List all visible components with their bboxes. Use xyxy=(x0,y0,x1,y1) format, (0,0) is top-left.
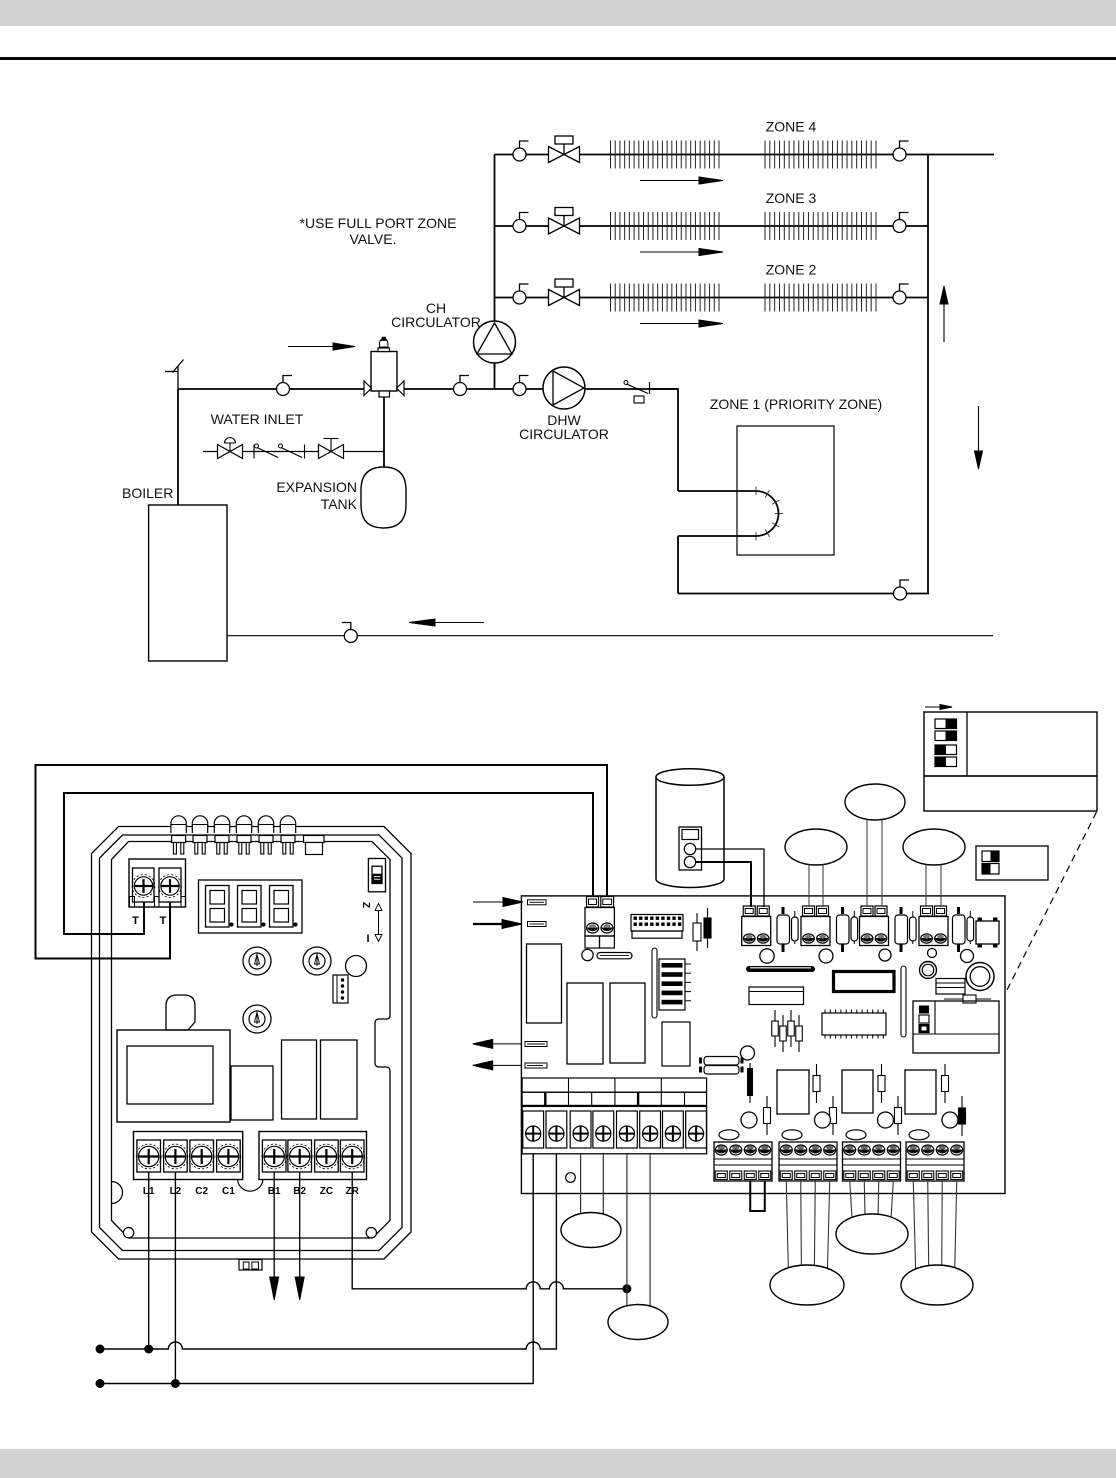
boiler return pipe xyxy=(227,635,993,637)
terminal label B2 xyxy=(293,1186,306,1197)
terminal block TB1 xyxy=(742,906,771,946)
oval C wires xyxy=(926,865,941,908)
zone 3 supply pipe xyxy=(495,225,929,227)
8-position screw strip xyxy=(522,1106,707,1153)
wire L1 xyxy=(148,1172,150,1350)
water inlet label xyxy=(211,411,304,427)
top rule line xyxy=(0,57,1116,60)
terminal block TB2 xyxy=(801,906,830,946)
zone wire loop 2 (left) xyxy=(608,1305,668,1340)
CH circulator pump xyxy=(474,321,516,363)
wire from strip 4 to loop xyxy=(602,1154,604,1214)
zone 4 zone valve xyxy=(549,136,580,163)
zone wire loop 1 (left) xyxy=(561,1213,621,1248)
oval loop A xyxy=(785,829,847,865)
boiler supply riser xyxy=(177,389,179,505)
jumper pad 2 xyxy=(528,922,547,927)
zone 2 supply pipe xyxy=(495,297,929,299)
square component w tabs xyxy=(976,918,999,948)
black pin component xyxy=(747,1063,753,1103)
rail 1 junction dot L1 xyxy=(144,1345,153,1354)
mount hole circle 3 xyxy=(879,949,891,961)
wire T1 to right board (inner loop) xyxy=(64,793,593,934)
wire L2 xyxy=(174,1172,176,1384)
terminal block TB-top (from aquastat) xyxy=(585,897,614,949)
box below striped block xyxy=(662,1022,690,1066)
I marking xyxy=(366,933,369,945)
right board outline xyxy=(521,896,1005,1194)
svg-text:VALVE.: VALVE. xyxy=(350,231,397,247)
boiler supply main pipe xyxy=(178,388,678,390)
hole circle row2 4 xyxy=(942,1112,958,1128)
svg-text:T: T xyxy=(132,915,139,927)
right terminal strip B1 B2 ZC ZR xyxy=(259,1132,367,1180)
svg-text:EXPANSION: EXPANSION xyxy=(276,479,357,495)
buzzer circle xyxy=(346,956,367,977)
T label 1 xyxy=(132,915,139,927)
DHW circulator pump xyxy=(543,367,585,409)
thick rect component xyxy=(834,972,895,992)
DIP switches 4x xyxy=(935,719,957,767)
terminal label L2 xyxy=(170,1186,182,1197)
terminal label ZR xyxy=(346,1186,360,1197)
CH circulator label xyxy=(391,300,481,330)
contact band rows xyxy=(522,1078,707,1105)
left terminal strip L1 L2 C2 C1 xyxy=(134,1132,243,1180)
rail 1 dot left xyxy=(96,1345,105,1354)
svg-text:ZC: ZC xyxy=(320,1186,333,1197)
svg-text:C1: C1 xyxy=(222,1186,235,1197)
flow check valve xyxy=(624,381,650,404)
svg-text:ZONE 2: ZONE 2 xyxy=(766,262,817,278)
ball valve before CH riser xyxy=(454,376,470,396)
zone 3 zone valve xyxy=(549,208,580,235)
zone 3 flow arrow xyxy=(640,249,723,256)
LED 5 on left board xyxy=(258,816,273,854)
up-down arrow marking xyxy=(375,904,382,942)
zone1 return bottom pipe xyxy=(678,593,894,595)
wire from strip 3 to loop xyxy=(580,1154,582,1214)
air separator bottom tab xyxy=(379,391,390,397)
top grey header bar xyxy=(0,0,1116,26)
zone wire loop D xyxy=(770,1265,844,1305)
svg-text:ZONE 1 (PRIORITY ZONE): ZONE 1 (PRIORITY ZONE) xyxy=(710,396,882,412)
T-T screw terminal block xyxy=(129,859,186,907)
svg-text:T: T xyxy=(160,915,167,927)
small ring xyxy=(920,962,937,979)
water inlet pipe xyxy=(203,451,384,453)
wires BB3 to zone loop xyxy=(850,1181,894,1217)
oval pad 2 xyxy=(782,1130,802,1140)
adjustment knob 1 xyxy=(243,947,271,975)
jumper U loop on BB1 xyxy=(750,1181,765,1211)
air separator right union xyxy=(397,381,405,396)
relay 2 xyxy=(282,1040,317,1119)
check valve 2 xyxy=(279,444,305,459)
4-pin connector xyxy=(333,975,348,1003)
mount hole circle 1 xyxy=(760,949,774,963)
zone 2 ball valve right xyxy=(893,284,909,304)
zone1 label xyxy=(710,396,882,412)
svg-text:Z: Z xyxy=(360,902,371,908)
wire from strip 6 to loop xyxy=(649,1154,651,1306)
oval A wires xyxy=(809,865,823,908)
boiler label xyxy=(122,485,173,501)
relief valve at riser top xyxy=(165,360,184,390)
output arrow 3 xyxy=(473,1039,521,1048)
big ring xyxy=(966,963,994,991)
svg-text:ZONE 4: ZONE 4 xyxy=(766,119,817,135)
rail 1 (L1) xyxy=(100,1154,556,1349)
white rect component xyxy=(749,987,804,1005)
Z marking xyxy=(360,902,371,908)
wire from strip 5 through dot xyxy=(626,1154,628,1306)
pin component 1 xyxy=(693,913,701,951)
terminal block TB4 xyxy=(919,906,948,946)
svg-text:WATER INLET: WATER INLET xyxy=(211,411,304,427)
svg-text:ZONE 3: ZONE 3 xyxy=(766,190,817,206)
svg-text:CIRCULATOR: CIRCULATOR xyxy=(519,426,609,442)
left board inner casing xyxy=(112,842,391,1239)
zone1 supply horizontal xyxy=(678,490,756,492)
striped box xyxy=(936,979,965,995)
mode slide switch xyxy=(368,859,385,892)
zone 4 ball valve xyxy=(513,141,529,161)
bottom terminal block BB2 xyxy=(779,1142,837,1181)
tall rect relay left xyxy=(527,944,562,1023)
rail 2 junction dot L2 xyxy=(171,1379,180,1388)
hole circle row2 1 xyxy=(741,1112,757,1128)
svg-text:TANK: TANK xyxy=(321,496,358,512)
zone 3 label xyxy=(766,190,817,206)
zone1 pipe to return main xyxy=(907,593,930,595)
bottom terminal block BB1 xyxy=(714,1142,772,1181)
zone 3 ball valve right xyxy=(893,213,909,233)
zone 4 baseboard radiator segment 2 xyxy=(765,141,876,169)
wire B2 with arrow xyxy=(295,1172,304,1301)
air separator body xyxy=(371,352,397,392)
arrow above top right box xyxy=(925,705,952,710)
bottom cable clamp tab xyxy=(239,1260,262,1271)
zone 3 baseboard radiator segment 2 xyxy=(765,212,876,240)
wires BB2 to zone loop xyxy=(786,1181,830,1268)
wire ZR xyxy=(352,1172,627,1289)
oval loop B xyxy=(845,784,905,820)
note *USE FULL PORT ZONE VALVE. xyxy=(300,215,457,247)
gate valve xyxy=(319,439,344,459)
input arrow 1 xyxy=(473,898,523,907)
ZR junction dot xyxy=(622,1284,631,1293)
tank aquastat control xyxy=(679,827,702,870)
LED 3 on left board xyxy=(214,816,229,854)
zone 4 ball valve right xyxy=(893,141,909,161)
LED 2 on left board xyxy=(192,816,207,854)
hole circle row2 2 xyxy=(815,1112,831,1128)
air separator left union xyxy=(364,381,372,396)
7-segment display xyxy=(199,880,303,933)
mount hole circle 4 xyxy=(928,949,937,958)
relay R1 xyxy=(777,1070,809,1114)
zone 2 zone valve xyxy=(549,279,580,306)
DHW circulator label xyxy=(519,412,609,442)
circle below TB-top xyxy=(582,949,593,960)
pin component 2 xyxy=(704,908,711,948)
wire B1 with arrow xyxy=(270,1172,279,1301)
check valve 1 xyxy=(254,444,278,459)
zone1 tank rectangle xyxy=(737,426,834,555)
screw hole right xyxy=(366,1228,376,1238)
casing left notch xyxy=(112,1182,123,1204)
thin vertical slot right xyxy=(901,966,906,1037)
input arrow 2 xyxy=(473,920,522,929)
striped DIP block xyxy=(659,959,691,1010)
left board middle casing xyxy=(100,835,403,1251)
relay mid 2 xyxy=(610,983,645,1063)
capacitor pair 2 xyxy=(837,907,858,952)
relay R3 xyxy=(905,1070,936,1114)
pipe check valve to corner xyxy=(652,388,678,390)
relay R2 xyxy=(842,1070,873,1113)
zone1 return horizontal xyxy=(678,535,756,537)
pin cluster xyxy=(772,1010,803,1052)
rail 2 dot left xyxy=(96,1379,105,1388)
bottom grey footer bar xyxy=(0,1449,1116,1478)
indirect tank cylinder xyxy=(656,769,724,888)
tank sensor wire 1 xyxy=(696,849,764,907)
IC chip xyxy=(822,1010,886,1039)
jumper pad 1 xyxy=(528,900,547,905)
zone1 heat exchanger coil xyxy=(756,487,783,541)
tiny diode xyxy=(944,995,991,1003)
relay big box xyxy=(117,1030,230,1122)
bottom terminal block BB4 xyxy=(906,1142,964,1181)
pin between relays 2 xyxy=(878,1064,885,1103)
dual capsule component xyxy=(699,1057,744,1075)
small connector box right of LEDs xyxy=(304,836,325,855)
tank sensor wire 2 xyxy=(696,862,751,907)
pin row2 black xyxy=(959,1096,966,1136)
expansion tank label xyxy=(276,479,357,512)
mount hole circle 5 xyxy=(961,950,974,963)
zone wire loop F xyxy=(901,1265,973,1305)
jumper pad 3 xyxy=(525,1042,547,1047)
thin vertical slot left xyxy=(652,948,657,1018)
LED 6 on left board xyxy=(280,816,295,854)
zone 2 baseboard radiator segment 2 xyxy=(765,284,876,312)
pin between relays 1 xyxy=(813,1064,820,1103)
boiler rectangle xyxy=(149,505,227,661)
circle near power box xyxy=(741,1046,755,1060)
black slot bar xyxy=(746,966,815,972)
jumper pad 4 xyxy=(525,1063,547,1068)
svg-text:BOILER: BOILER xyxy=(122,485,173,501)
terminal label C2 xyxy=(195,1186,208,1197)
svg-text:I: I xyxy=(366,933,369,945)
zone 2 baseboard radiator segment 1 xyxy=(611,284,720,312)
svg-text:CIRCULATOR: CIRCULATOR xyxy=(391,314,481,330)
oval pad 3 xyxy=(846,1130,866,1140)
pin between relays 3 xyxy=(942,1064,949,1103)
expansion tank riser xyxy=(383,397,385,467)
svg-text:C2: C2 xyxy=(195,1186,208,1197)
zone1 supply drop xyxy=(677,388,679,491)
zone wire loop E xyxy=(836,1214,908,1254)
zone1 return drop xyxy=(677,536,679,594)
ball valve after CH riser xyxy=(513,376,529,396)
output arrow 4 xyxy=(473,1061,521,1070)
transformer blob xyxy=(166,995,195,1030)
oval B wires xyxy=(867,820,882,908)
resistor slot xyxy=(597,953,632,959)
rail 2 (L2) xyxy=(100,1154,533,1384)
hole circle row2 3 xyxy=(878,1112,894,1128)
zone return main (right vertical) xyxy=(927,154,929,594)
up arrow near return main xyxy=(940,286,948,342)
power module box xyxy=(913,1001,999,1053)
zone supply riser (left vertical) xyxy=(494,155,496,369)
capacitor pair 1 xyxy=(777,907,798,952)
LED 4 on left board xyxy=(236,816,251,854)
relay mid 1 xyxy=(567,983,603,1064)
air separator auto vent xyxy=(378,337,390,352)
bottom terminal block BB3 xyxy=(843,1142,901,1181)
T label 2 xyxy=(160,915,167,927)
LED 1 on left board xyxy=(171,816,186,854)
oval pad 4 xyxy=(909,1130,929,1140)
CH circulator riser xyxy=(494,363,496,389)
pressure reducing valve xyxy=(218,438,243,459)
zone 2 ball valve xyxy=(513,284,529,304)
left board outer casing xyxy=(92,827,412,1260)
top right box xyxy=(924,712,1097,776)
capacitor pair 3 xyxy=(895,907,916,952)
screw hole left xyxy=(123,1228,133,1238)
zone 4 label xyxy=(766,119,817,135)
terminal block TB3 xyxy=(860,906,889,946)
capacitor pair 4 xyxy=(953,907,974,952)
zone 4 baseboard radiator segment 1 xyxy=(611,141,720,169)
svg-text:*USE FULL PORT ZONE: *USE FULL PORT ZONE xyxy=(300,215,457,231)
relay big box inner xyxy=(127,1046,213,1104)
zone 3 baseboard radiator segment 1 xyxy=(611,212,720,240)
return drain valve xyxy=(342,623,358,643)
terminal label B1 xyxy=(268,1186,281,1197)
hole below strip xyxy=(566,1173,576,1183)
small box right of relay xyxy=(231,1066,273,1120)
zone 2 flow arrow xyxy=(640,320,723,327)
flow arrow above main xyxy=(288,343,355,350)
adjustment knob 3 xyxy=(243,1005,271,1033)
zone 3 ball valve xyxy=(513,213,529,233)
top right box band xyxy=(924,776,1097,811)
return flow arrow xyxy=(409,619,484,626)
supply main top right extension xyxy=(927,154,994,156)
down arrow near return main xyxy=(975,406,983,469)
zone 2 label xyxy=(766,262,817,278)
oval pad 1 xyxy=(719,1130,739,1140)
ball valve on main xyxy=(277,376,293,396)
zone 4 flow arrow xyxy=(640,177,723,184)
wire T2 to right board (outer loop) xyxy=(36,765,608,959)
pin row2 3 xyxy=(895,1096,902,1135)
zone1 drain valve xyxy=(894,580,910,600)
callout dashed line xyxy=(1005,812,1097,994)
small DIP box xyxy=(976,846,1048,880)
expansion tank xyxy=(361,467,406,528)
terminal label C1 xyxy=(222,1186,235,1197)
wires BB4 to zone loop xyxy=(913,1181,957,1269)
comb header connector xyxy=(631,915,683,939)
adjustment knob 2 xyxy=(303,947,331,975)
mount hole circle 2 xyxy=(819,949,833,963)
pin row2 1 xyxy=(764,1096,771,1135)
terminal label ZC xyxy=(320,1186,333,1197)
pin row2 2 xyxy=(830,1096,837,1135)
zone 4 supply pipe xyxy=(495,154,929,156)
terminal label L1 xyxy=(143,1186,155,1197)
relay 3 xyxy=(321,1040,358,1119)
oval loop C xyxy=(903,829,965,865)
casing middle notch xyxy=(238,1180,264,1192)
